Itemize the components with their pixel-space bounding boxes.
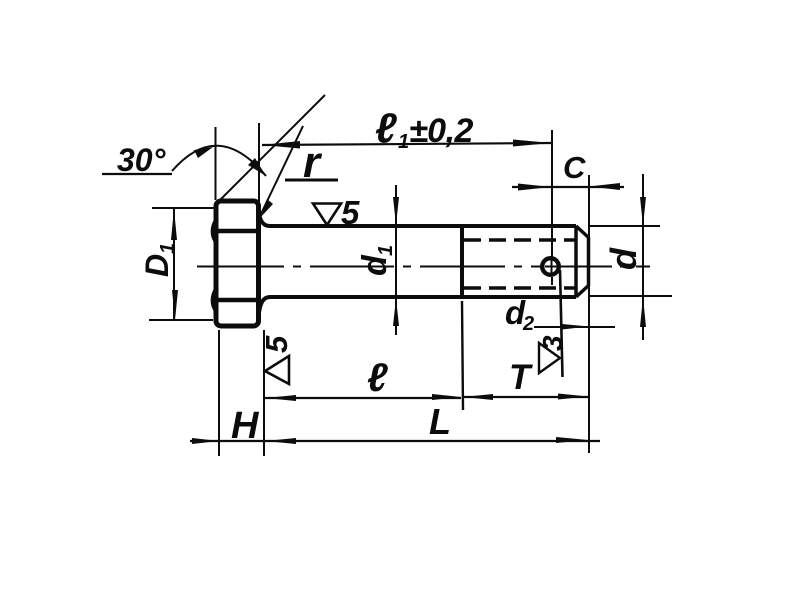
- svg-text:1: 1: [398, 131, 409, 153]
- label 3 bottom surface mark rotated: [537, 335, 568, 351]
- H extension line right: [263, 330, 265, 456]
- svg-text:T: T: [509, 358, 533, 397]
- svg-text:d: d: [603, 247, 644, 270]
- dimension line l1: [262, 143, 551, 145]
- H extension line left: [218, 330, 220, 456]
- hex face line upper: [216, 229, 259, 234]
- thread boundary extension line down: [462, 301, 463, 410]
- d extension line top: [588, 225, 660, 227]
- hex face line lower: [216, 298, 259, 303]
- dimension line D1: [173, 208, 175, 320]
- surface mark triangle bottom left rotated: [265, 356, 289, 384]
- 30 degree arc: [172, 146, 266, 176]
- cotter pin hole: [542, 258, 559, 275]
- end face: [587, 237, 591, 286]
- label d1 rotated: [356, 245, 397, 276]
- label 5 bottom surface mark rotated: [259, 335, 294, 353]
- svg-text:d: d: [356, 254, 394, 276]
- bolt head outline: [216, 201, 259, 326]
- end chamfer start line: [574, 226, 578, 297]
- thread dashed line upper: [464, 238, 576, 242]
- dimension line d1: [395, 185, 397, 335]
- dimension line T: [463, 396, 588, 398]
- right end extension line: [588, 175, 590, 453]
- fillet and shank bottom edge: [259, 297, 577, 318]
- dimension line H and L: [190, 440, 600, 442]
- hex face arc upper left: [213, 219, 217, 243]
- end chamfer bottom diagonal: [576, 286, 588, 297]
- dimension line d: [642, 174, 644, 340]
- thread boundary line: [460, 226, 464, 297]
- svg-text:30°: 30°: [117, 142, 166, 178]
- hole edge leader line down: [560, 270, 563, 377]
- svg-text:L: L: [429, 401, 451, 442]
- hole center cross vertical: [551, 260, 553, 275]
- D1 extension line top: [152, 207, 216, 209]
- svg-text:C: C: [563, 150, 586, 185]
- surface mark triangle top: [313, 204, 341, 226]
- fillet and shank top edge: [259, 209, 577, 226]
- svg-text:H: H: [231, 405, 260, 447]
- r label underline: [285, 179, 338, 182]
- svg-text:2: 2: [522, 313, 534, 335]
- svg-text:1: 1: [375, 245, 397, 256]
- svg-text:ℓ: ℓ: [367, 356, 388, 400]
- svg-text:r: r: [303, 138, 323, 187]
- svg-text:5: 5: [341, 194, 360, 231]
- hole center cross horizontal: [545, 266, 558, 268]
- svg-text:ℓ: ℓ: [375, 105, 397, 152]
- thread dashed line lower: [464, 286, 576, 290]
- svg-text:5: 5: [259, 335, 294, 353]
- d2 leader line: [534, 326, 615, 328]
- dimension line C: [512, 186, 624, 188]
- head left face extension line up: [215, 127, 217, 200]
- label d rotated: [603, 247, 644, 270]
- hex face arc lower left: [213, 288, 217, 312]
- svg-text:1: 1: [157, 243, 179, 254]
- end chamfer top diagonal: [576, 226, 588, 237]
- dimension line l: [265, 397, 461, 399]
- head right face extension line up: [258, 123, 260, 207]
- hole center extension line: [551, 130, 553, 285]
- label D1 rotated: [139, 243, 179, 277]
- 30 degree label underline: [102, 173, 172, 175]
- D1 extension line bottom: [149, 319, 213, 321]
- chamfer construction diagonal: [219, 95, 325, 201]
- surface mark triangle bottom right rotated: [539, 343, 560, 373]
- centerline axis: [197, 266, 650, 268]
- d extension line bottom: [588, 295, 672, 297]
- svg-text:±0,2: ±0,2: [409, 112, 474, 150]
- r leader line: [260, 126, 303, 216]
- svg-text:D: D: [139, 254, 175, 277]
- svg-text:3: 3: [537, 335, 568, 351]
